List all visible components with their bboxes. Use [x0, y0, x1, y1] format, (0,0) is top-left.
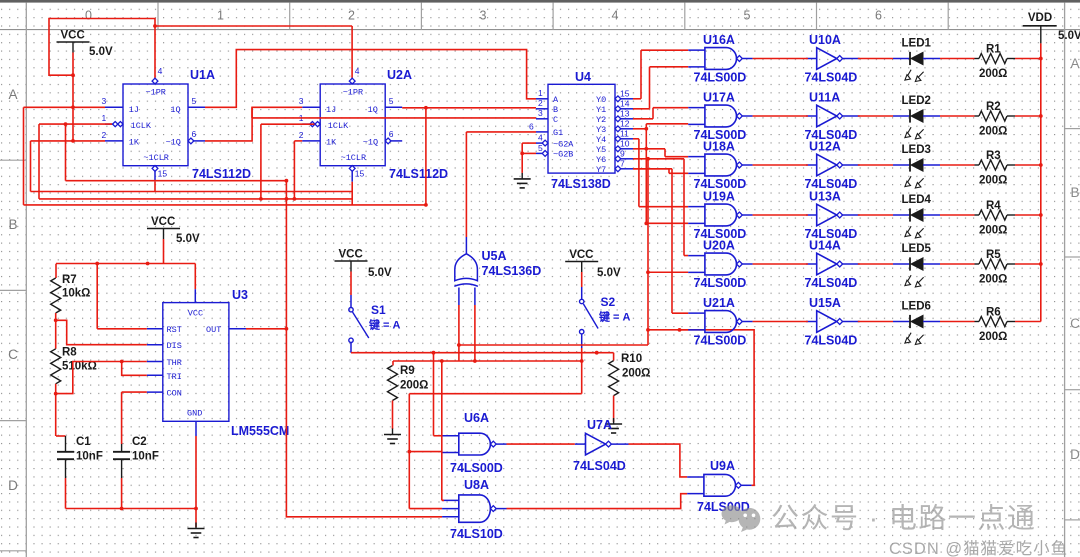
svg-text:LED3: LED3: [902, 144, 931, 156]
svg-text:VCC: VCC: [339, 249, 363, 261]
svg-text:Y0: Y0: [596, 95, 606, 105]
wire R1 to VDD rail: [1007, 58, 1015, 60]
svg-text:A: A: [8, 87, 17, 102]
svg-text:7: 7: [620, 159, 625, 169]
svg-text:R6: R6: [986, 307, 1001, 319]
svg-text:U8A: U8A: [464, 478, 489, 492]
resistor R5 200 row5: [979, 259, 1007, 269]
svg-text:13: 13: [620, 109, 630, 119]
svg-text:Y1: Y1: [596, 105, 606, 115]
wire U4 Y6 to row5: [633, 158, 684, 160]
svg-text:15: 15: [158, 169, 168, 179]
inverter U14A 74LS04D row5: [817, 253, 837, 275]
right frame row dividers: [1065, 128, 1080, 130]
inverter U11A 74LS04D row2: [817, 105, 837, 127]
svg-text:U17A: U17A: [703, 91, 735, 105]
resistor R10 200: [613, 353, 615, 361]
right frame vertical line: [1064, 3, 1066, 557]
wire R5 to VDD rail: [1007, 263, 1015, 265]
svg-text:VCC: VCC: [151, 216, 175, 228]
svg-text:U11A: U11A: [809, 91, 840, 105]
wire U4 Y0 to row gate: [633, 98, 641, 100]
svg-text:TRI: TRI: [167, 372, 182, 382]
wire J rail horizontal to U2A output column: [24, 204, 426, 206]
wire VCC rail to RST: [96, 264, 98, 329]
svg-text:R8: R8: [62, 347, 77, 359]
svg-text:2: 2: [538, 98, 543, 108]
wire ground bus under 555: [66, 508, 197, 510]
svg-text:~1CLR: ~1CLR: [143, 153, 169, 163]
svg-text:LM555CM: LM555CM: [231, 424, 289, 438]
wire U17A to U11A: [753, 115, 808, 117]
svg-text:U10A: U10A: [809, 33, 841, 47]
svg-text:VDD: VDD: [1028, 12, 1052, 24]
svg-text:U14A: U14A: [809, 239, 841, 253]
wire S2 net L3: [393, 360, 582, 362]
xor gate U5A 74LS136D: [455, 254, 478, 281]
wire R7/R8 node to DIS: [56, 320, 147, 344]
svg-text:VCC: VCC: [61, 30, 85, 42]
svg-text:CSDN @猫猫爱吃小鱼: CSDN @猫猫爱吃小鱼: [889, 539, 1068, 557]
wire U6A out to U7A: [507, 443, 575, 445]
flip-flop U1A 74LS112D: [102, 66, 206, 182]
nand U8A 74LS10D: [459, 495, 491, 522]
wire R3 to VDD rail: [1007, 164, 1015, 166]
wire 1J rail to left bus: [24, 106, 106, 108]
switch S2 key=A: [581, 272, 583, 287]
LED LED3 row3: [858, 164, 893, 166]
resistor R2 200 row2: [979, 111, 1007, 121]
svg-text:1CLK: 1CLK: [131, 121, 152, 131]
svg-text:200Ω: 200Ω: [979, 225, 1007, 237]
svg-text:U19A: U19A: [703, 190, 735, 204]
wire U2A 1Q to U4 B input: [402, 107, 536, 109]
wire U4 Y5 to row3: [633, 148, 665, 150]
svg-text:3: 3: [102, 96, 107, 106]
svg-text:R10: R10: [621, 353, 642, 365]
svg-text:S1: S1: [371, 303, 386, 317]
wire VCC to 1J 1K rails: [72, 75, 74, 141]
svg-text:公众号 · 电路一点通: 公众号 · 电路一点通: [771, 503, 1036, 534]
LED LED4 row4: [858, 214, 893, 216]
svg-text:1: 1: [538, 88, 543, 98]
wire U4 Y3 to row gate: [633, 168, 669, 170]
svg-text:Y6: Y6: [596, 155, 606, 165]
svg-text:2: 2: [299, 130, 304, 140]
nand U20A 74LS00D row5: [705, 253, 737, 275]
svg-text:GND: GND: [187, 409, 202, 419]
svg-text:5.0V: 5.0V: [597, 267, 621, 279]
svg-text:D: D: [8, 478, 18, 493]
wire U4 Y2 to row gate: [633, 118, 653, 120]
nand U6A 74LS00D: [459, 433, 491, 455]
svg-text:U15A: U15A: [809, 296, 841, 310]
svg-text:R4: R4: [986, 200, 1001, 212]
flip-flop U2A 74LS112D: [299, 66, 403, 182]
svg-text:U1A: U1A: [190, 68, 215, 82]
wire U9A output loop to row6: [648, 330, 754, 485]
resistor R3 200 row3: [979, 160, 1007, 170]
svg-text:C: C: [553, 115, 558, 125]
svg-text:5: 5: [744, 9, 751, 23]
ground under R10: [613, 418, 615, 424]
svg-text:B: B: [1070, 185, 1079, 200]
svg-text:A: A: [553, 95, 559, 105]
inverter U12A 74LS04D row3: [817, 154, 837, 176]
svg-text:10nF: 10nF: [132, 451, 159, 463]
svg-text:VCC: VCC: [188, 309, 203, 319]
svg-text:CON: CON: [167, 389, 182, 399]
svg-text:15: 15: [620, 89, 630, 99]
wire L2 to U6A input1: [433, 353, 435, 436]
svg-text:74LS112D: 74LS112D: [192, 167, 251, 181]
wire R8 bottom to THR TRI: [56, 362, 147, 394]
svg-text:R7: R7: [62, 274, 77, 286]
svg-text:U5A: U5A: [482, 249, 507, 263]
svg-text:11: 11: [620, 129, 629, 139]
wire U1A clock feed: [39, 123, 112, 125]
svg-text:6: 6: [389, 129, 394, 139]
svg-text:B: B: [553, 105, 558, 115]
capacitor C1 10nF: [56, 435, 66, 437]
left frame row dividers: [0, 159, 26, 161]
svg-text:VCC: VCC: [569, 249, 593, 261]
resistor R4 200 row4: [979, 210, 1007, 220]
nand U18A 74LS00D row3: [705, 154, 737, 176]
svg-text:LED5: LED5: [902, 243, 932, 255]
svg-text:U13A: U13A: [809, 190, 841, 204]
wire U4 Y3 to row2: [633, 128, 646, 130]
svg-text:~1Q: ~1Q: [166, 137, 181, 147]
svg-text:1CLK: 1CLK: [328, 121, 349, 131]
wire U3 OUT to U8A: [246, 329, 442, 517]
wire R2 to VDD rail: [1007, 115, 1015, 117]
svg-text:~1Q: ~1Q: [363, 137, 378, 147]
svg-text:5: 5: [538, 143, 543, 153]
wire U18A to U12A: [753, 164, 808, 166]
svg-text:U2A: U2A: [387, 68, 412, 82]
wire U7A out to U9A input1: [629, 444, 688, 477]
svg-text:5.0V: 5.0V: [368, 267, 392, 279]
svg-text:12: 12: [620, 119, 630, 129]
wire VCC1 net to flip-flop preset pins: [72, 53, 74, 76]
svg-text:OUT: OUT: [206, 325, 221, 335]
wire S1 net L2: [351, 352, 614, 354]
svg-text:200Ω: 200Ω: [979, 331, 1007, 343]
inverter U13A 74LS04D row4: [817, 204, 837, 226]
svg-text:RST: RST: [167, 325, 182, 335]
svg-text:10kΩ: 10kΩ: [62, 288, 90, 300]
ground below U3: [195, 523, 197, 529]
resistor R8 510k: [51, 349, 61, 384]
svg-text:U3: U3: [232, 288, 248, 302]
svg-text:R5: R5: [986, 249, 1001, 261]
wire L1 to row5: [459, 344, 648, 346]
svg-text:1Q: 1Q: [170, 105, 180, 115]
nand U21A 74LS00D row6: [705, 311, 737, 333]
svg-text:3: 3: [480, 9, 487, 23]
svg-text:G1: G1: [553, 128, 563, 138]
wire U4 Y4 to row gate: [633, 168, 672, 170]
sheet border frame top bar: [0, 0, 1080, 3]
wire U1A ~1Q to U2A 1J: [205, 107, 302, 141]
svg-text:3: 3: [538, 108, 543, 118]
ground under U4: [521, 173, 523, 179]
nand U9A 74LS00D: [704, 474, 736, 496]
wire U2A output column down: [425, 108, 427, 205]
svg-text:1J: 1J: [326, 105, 336, 115]
wire XOR input feeds: [458, 305, 460, 361]
svg-text:~1CLR: ~1CLR: [341, 153, 367, 163]
svg-text:A: A: [1070, 56, 1079, 71]
svg-text:C: C: [8, 347, 18, 362]
nand U17A 74LS00D row2: [705, 105, 737, 127]
LED LED2 row2: [858, 115, 893, 117]
LED LED1 row1: [858, 58, 893, 60]
svg-text:Y5: Y5: [596, 145, 606, 155]
svg-text:R3: R3: [986, 150, 1001, 162]
wire L2 branch to U6A input2: [408, 394, 410, 452]
svg-text:74LS00D: 74LS00D: [694, 71, 747, 85]
wire U1A CLK left link: [65, 124, 67, 181]
svg-text:200Ω: 200Ω: [400, 380, 428, 392]
wire S2 net to U6A U8A inputs: [409, 393, 581, 395]
svg-text:U18A: U18A: [703, 140, 735, 154]
svg-text:6: 6: [192, 129, 197, 139]
svg-text:74LS138D: 74LS138D: [551, 177, 611, 191]
wire U19A to U13A: [753, 214, 808, 216]
resistor R1 200 row1: [979, 54, 1007, 64]
svg-text:Y4: Y4: [596, 135, 606, 145]
wire U20A to U14A: [753, 263, 808, 265]
wire U4 Y1 to row gate: [633, 108, 650, 110]
svg-text:4: 4: [355, 66, 360, 76]
svg-text:键 = A: 键 = A: [368, 318, 401, 332]
resistor R6 200 row6: [979, 317, 1007, 327]
wire L3 to U8A input1: [441, 361, 443, 500]
switch S1 key=A: [350, 272, 352, 296]
svg-text:3: 3: [299, 96, 304, 106]
svg-text:4: 4: [538, 133, 543, 143]
junction node VCC loop: [71, 73, 75, 77]
svg-text:C: C: [1070, 316, 1080, 331]
svg-text:74LS112D: 74LS112D: [389, 167, 448, 181]
inverter U15A 74LS04D row6: [817, 311, 837, 333]
wire to U4 C input: [252, 117, 536, 119]
svg-text:1: 1: [217, 9, 224, 23]
svg-text:9: 9: [620, 149, 625, 159]
svg-text:LED1: LED1: [902, 37, 932, 49]
ruler band bottom line: [0, 29, 1080, 31]
svg-text:C1: C1: [76, 436, 91, 448]
wire U21A to U15A: [753, 321, 808, 323]
svg-text:200Ω: 200Ω: [622, 368, 650, 380]
svg-text:6: 6: [875, 9, 882, 23]
wire R4 to VDD rail: [1007, 214, 1015, 216]
svg-text:15: 15: [355, 169, 365, 179]
capacitor C2 10nF: [121, 392, 123, 444]
svg-text:1K: 1K: [326, 137, 337, 147]
svg-text:Y3: Y3: [596, 125, 606, 135]
wire U4 G2 enables to ground: [522, 142, 536, 144]
svg-text:1: 1: [102, 113, 107, 123]
svg-text:4: 4: [612, 9, 619, 23]
svg-text:74LS04D: 74LS04D: [573, 459, 626, 473]
svg-text:74LS10D: 74LS10D: [450, 527, 503, 541]
svg-text:5: 5: [389, 96, 394, 106]
svg-text:200Ω: 200Ω: [979, 274, 1007, 286]
svg-text:D: D: [1070, 447, 1080, 462]
svg-text:U21A: U21A: [703, 296, 735, 310]
svg-text:200Ω: 200Ω: [979, 68, 1007, 80]
svg-text:LED4: LED4: [902, 194, 932, 206]
svg-text:R2: R2: [986, 101, 1001, 113]
svg-text:THR: THR: [167, 358, 182, 368]
svg-text:200Ω: 200Ω: [979, 126, 1007, 138]
wire U8A out to U9A input2: [507, 494, 688, 509]
svg-text:74LS04D: 74LS04D: [805, 71, 858, 85]
svg-text:74LS04D: 74LS04D: [805, 334, 858, 348]
svg-text:0: 0: [85, 9, 92, 23]
svg-text:200Ω: 200Ω: [979, 175, 1007, 187]
timer U3 LM555CM: [147, 303, 246, 436]
wire VCC2 to U3 and R7: [163, 239, 165, 264]
svg-text:10nF: 10nF: [76, 451, 103, 463]
svg-text:74LS04D: 74LS04D: [805, 276, 858, 290]
ground under R9: [392, 429, 394, 435]
svg-text:~1PR: ~1PR: [343, 88, 363, 98]
wire branch to U8A input2: [408, 452, 410, 509]
inverter U10A 74LS04D row1: [817, 48, 837, 70]
wire U5A output to U4 G1: [465, 132, 467, 237]
svg-text:4: 4: [158, 66, 163, 76]
svg-text:~G2B: ~G2B: [553, 150, 573, 160]
inverter U7A 74LS04D: [586, 433, 606, 455]
svg-text:2: 2: [102, 130, 107, 140]
svg-text:LED2: LED2: [902, 95, 931, 107]
svg-text:74LS00D: 74LS00D: [694, 334, 747, 348]
wire U2A K feed: [293, 141, 295, 199]
svg-text:S2: S2: [601, 295, 616, 309]
svg-text:U20A: U20A: [703, 239, 735, 253]
left frame vertical line: [25, 3, 27, 557]
nand U16A 74LS00D row1: [705, 48, 737, 70]
wire VDD vertical rail: [1040, 43, 1042, 321]
svg-text:B: B: [8, 217, 17, 232]
svg-text:R9: R9: [400, 365, 415, 377]
svg-text:5: 5: [192, 96, 197, 106]
wire U4 Y4 to row4: [633, 138, 639, 140]
svg-text:Y2: Y2: [596, 115, 606, 125]
nand U19A 74LS00D row4: [705, 204, 737, 226]
wire clear rail: [31, 191, 353, 193]
svg-text:74LS136D: 74LS136D: [482, 264, 542, 278]
svg-text:6: 6: [529, 122, 534, 132]
ruler tick marks: [157, 3, 159, 30]
wire 1K rail to left bus: [31, 140, 106, 142]
LED LED5 row5: [858, 263, 893, 265]
svg-text:U6A: U6A: [464, 411, 489, 425]
svg-text:14: 14: [620, 99, 630, 109]
svg-text:R1: R1: [986, 44, 1001, 56]
svg-text:U12A: U12A: [809, 140, 841, 154]
svg-text:5.0V: 5.0V: [89, 46, 113, 58]
svg-text:1K: 1K: [129, 137, 140, 147]
svg-text:LED6: LED6: [902, 300, 931, 312]
svg-text:10: 10: [620, 139, 630, 149]
svg-text:1Q: 1Q: [368, 105, 378, 115]
svg-text:U16A: U16A: [703, 33, 735, 47]
svg-text:~G2A: ~G2A: [553, 139, 574, 149]
svg-text:Y7: Y7: [596, 165, 606, 175]
svg-text:1J: 1J: [129, 105, 139, 115]
svg-text:U7A: U7A: [587, 418, 612, 432]
svg-text:DIS: DIS: [167, 341, 182, 351]
svg-text:5.0V: 5.0V: [176, 233, 200, 245]
wire U2A clock feed: [261, 123, 315, 125]
svg-text:~1PR: ~1PR: [146, 88, 166, 98]
LED LED6 row6: [858, 321, 893, 323]
decoder U4 74LS138D: [529, 84, 633, 175]
svg-text:74LS00D: 74LS00D: [694, 276, 747, 290]
wire clock rail: [39, 198, 352, 200]
wire 555 output riser to clock rail: [285, 181, 287, 329]
svg-text:5.0V: 5.0V: [1058, 30, 1080, 42]
svg-text:C2: C2: [132, 436, 147, 448]
watermark logo circles: [722, 503, 1037, 534]
resistor R7 10k: [55, 264, 57, 278]
svg-text:键 = A: 键 = A: [598, 310, 631, 324]
svg-text:U9A: U9A: [710, 459, 735, 473]
svg-text:74LS00D: 74LS00D: [450, 461, 503, 475]
resistor R9 200: [392, 361, 394, 366]
wire R6 to VDD rail: [1007, 321, 1015, 323]
wire U1A 1Q to U4 A input: [205, 50, 536, 108]
svg-text:2: 2: [348, 9, 355, 23]
wire U16A to U10A: [753, 58, 808, 60]
svg-text:U4: U4: [575, 70, 591, 84]
